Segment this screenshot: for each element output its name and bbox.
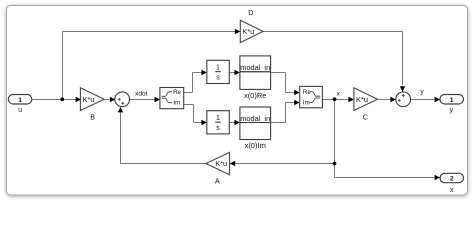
svg-text:Re: Re [303, 89, 311, 96]
svg-text:y: y [449, 107, 453, 114]
svg-text:Im: Im [303, 99, 310, 106]
svg-text:A: A [215, 177, 220, 186]
svg-text:2: 2 [450, 176, 454, 183]
svg-text:modal_in: modal_in [240, 114, 270, 123]
svg-text:1: 1 [216, 64, 220, 71]
svg-text:Im: Im [173, 100, 180, 107]
svg-text:modal_in: modal_in [240, 63, 270, 72]
svg-text:1: 1 [216, 115, 220, 122]
svg-text:xdot: xdot [135, 90, 148, 97]
svg-text:x(0)Re: x(0)Re [244, 91, 267, 100]
svg-text:B: B [90, 113, 95, 122]
svg-text:K*u: K*u [242, 27, 254, 36]
svg-text:x(0)Im: x(0)Im [245, 141, 266, 150]
svg-text:C: C [363, 113, 368, 122]
svg-text:K*u: K*u [356, 95, 368, 104]
svg-text:K*u: K*u [215, 159, 227, 168]
svg-text:x: x [450, 187, 454, 194]
svg-text:K*u: K*u [83, 95, 95, 104]
svg-text:D: D [248, 8, 253, 17]
svg-text:Re: Re [173, 89, 181, 96]
svg-text:1: 1 [450, 97, 454, 104]
svg-text:s: s [216, 75, 220, 82]
svg-text:s: s [216, 125, 220, 132]
svg-text:u: u [18, 107, 22, 114]
svg-text:1: 1 [18, 97, 22, 104]
